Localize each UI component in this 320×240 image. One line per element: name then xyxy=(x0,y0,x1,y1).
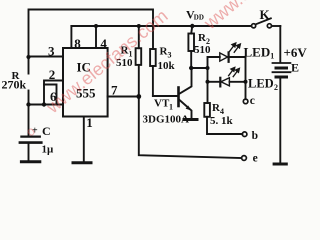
svg-text:3: 3 xyxy=(168,51,172,60)
svg-text:2: 2 xyxy=(274,83,278,92)
svg-text:LED: LED xyxy=(248,76,274,90)
svg-text:1μ: 1μ xyxy=(42,144,55,156)
svg-text:c: c xyxy=(250,95,255,107)
svg-text:C: C xyxy=(42,124,51,138)
svg-text:270k: 270k xyxy=(2,78,27,92)
svg-text:+6V: +6V xyxy=(284,45,308,60)
svg-text:1: 1 xyxy=(270,52,274,61)
svg-text:1: 1 xyxy=(169,103,173,112)
svg-text:510: 510 xyxy=(194,44,211,56)
svg-text:7: 7 xyxy=(111,83,118,98)
svg-text:5. 1k: 5. 1k xyxy=(210,115,234,127)
svg-text:VT: VT xyxy=(154,98,170,110)
svg-text:10k: 10k xyxy=(158,60,176,72)
svg-text:LED: LED xyxy=(244,44,271,59)
svg-text:K: K xyxy=(260,7,271,22)
svg-text:e: e xyxy=(253,153,258,165)
svg-text:b: b xyxy=(252,130,258,142)
svg-text:8: 8 xyxy=(74,36,81,51)
svg-text:3: 3 xyxy=(48,44,55,59)
svg-text:E: E xyxy=(291,61,299,75)
svg-text:1: 1 xyxy=(86,115,93,130)
svg-text:www.elecfans.com: www.elecfans.com xyxy=(200,0,314,34)
svg-text:3DG100A: 3DG100A xyxy=(143,114,190,126)
svg-text:2: 2 xyxy=(49,67,56,82)
